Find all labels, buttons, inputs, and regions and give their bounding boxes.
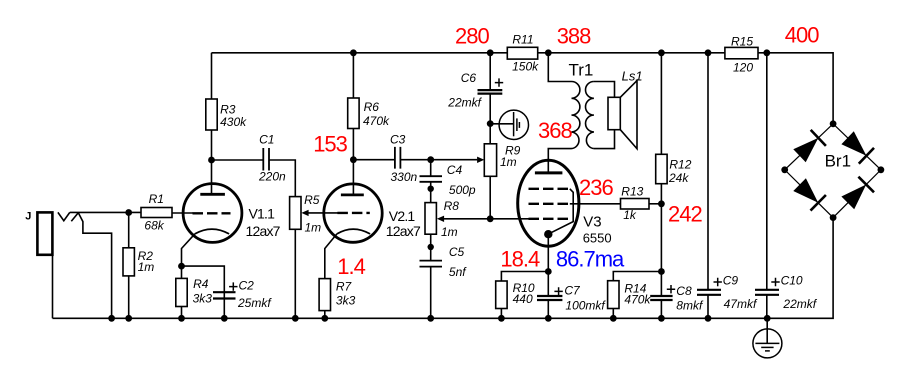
svg-text:24k: 24k [668, 171, 689, 185]
node rail C5 [427, 315, 434, 322]
potentiometer R9 1m [484, 144, 496, 177]
wire C1 row [212, 160, 296, 318]
svg-text:1m: 1m [305, 221, 322, 235]
node 280 [487, 49, 494, 56]
svg-text:R11: R11 [512, 32, 533, 46]
plus sign C10 [771, 278, 779, 286]
node R15 left [705, 49, 712, 56]
node rail C7 [545, 315, 552, 322]
plus sign C9 [714, 278, 722, 286]
svg-text:C3: C3 [390, 133, 406, 147]
svg-text:388: 388 [557, 23, 591, 48]
node rail C8 [658, 315, 665, 322]
node R8 C5 [428, 244, 434, 250]
wire node to C2 [182, 266, 225, 318]
connector J jack [37, 212, 52, 254]
wire input to node and R1 [70, 211, 141, 213]
resistor R3 430k [206, 99, 217, 130]
diode D1 top-left [793, 131, 866, 209]
svg-text:J: J [25, 211, 31, 223]
capacitor C9 47mkf [697, 290, 721, 295]
node C3 C4 [427, 156, 434, 163]
svg-text:3k3: 3k3 [336, 293, 356, 307]
svg-text:V2.1: V2.1 [389, 208, 416, 224]
wire C3 row [353, 159, 477, 161]
node R14 C8 [658, 268, 665, 275]
bridge rectifier Br1 [785, 124, 881, 218]
svg-text:Tr1: Tr1 [569, 61, 594, 80]
node rail R14 [610, 315, 617, 322]
svg-text:R6: R6 [364, 100, 380, 114]
wire jack tip contact [58, 212, 70, 220]
node rail ground [764, 315, 771, 322]
svg-text:C4: C4 [447, 163, 463, 177]
wire V1.1 cathode to R4 [182, 234, 195, 318]
svg-text:C6: C6 [461, 71, 477, 85]
wire R6 branch plate V2.1 [352, 53, 354, 195]
plus sign C7 [554, 287, 562, 295]
svg-text:C5: C5 [449, 245, 465, 259]
wire C10 branch [766, 53, 768, 319]
transformer Tr1 secondary winding [586, 82, 594, 149]
wire node to R14 [613, 272, 661, 319]
resistor R15 120 [725, 47, 758, 58]
resistor R12 24k [656, 154, 667, 183]
svg-text:22mkf: 22mkf [782, 297, 817, 311]
wire R2 leads [128, 213, 130, 319]
node C6 R9 [487, 120, 494, 127]
potentiometer R5 1m [290, 197, 301, 230]
svg-text:8mkf: 8mkf [676, 299, 704, 313]
wire C9 branch [707, 53, 709, 319]
svg-text:R13: R13 [621, 185, 643, 199]
svg-text:18.4: 18.4 [500, 247, 540, 272]
arrow wiper R9 [477, 157, 484, 163]
tube V2.1 12ax7 [324, 184, 382, 242]
svg-text:280: 280 [455, 23, 489, 48]
svg-text:86.7ma: 86.7ma [556, 247, 625, 272]
wire jack sleeve down [52, 255, 54, 318]
svg-text:500p: 500p [449, 183, 476, 197]
diode D2 top-right [841, 131, 866, 156]
node R9 grid [487, 215, 494, 222]
svg-text:C9: C9 [723, 274, 739, 288]
capacitor C7 100mkf [537, 296, 562, 300]
arrow wiper R8 [437, 216, 444, 222]
wire jack switch contact [71, 213, 78, 222]
diode D3 bottom-left [793, 178, 818, 203]
svg-text:470k: 470k [624, 293, 651, 307]
svg-text:6550: 6550 [583, 231, 612, 246]
svg-text:1m: 1m [441, 225, 458, 239]
svg-text:1m: 1m [138, 260, 155, 274]
resistor R1 68k [123, 47, 758, 310]
svg-text:Ls1: Ls1 [622, 68, 643, 83]
svg-text:R15: R15 [731, 35, 753, 49]
wire R12 branch [660, 53, 662, 272]
svg-text:V3: V3 [583, 214, 601, 231]
svg-text:430k: 430k [220, 115, 247, 129]
potentiometer R8 1m [425, 203, 436, 235]
node V1.1 cathode [178, 263, 185, 270]
plus sign C8 [667, 285, 675, 293]
node rail R4 [178, 315, 185, 322]
node bridge left [781, 166, 788, 173]
wire jack switch to ground [78, 213, 111, 319]
svg-text:470k: 470k [363, 114, 390, 128]
svg-text:400: 400 [785, 23, 819, 48]
transformer Tr1 primary winding [572, 82, 580, 149]
svg-text:C8: C8 [676, 284, 692, 298]
svg-text:1m: 1m [500, 155, 517, 169]
svg-text:153: 153 [313, 131, 347, 156]
wire V2.1 cathode to R7 [325, 234, 337, 318]
node V3 cathode [544, 230, 552, 238]
svg-text:368: 368 [538, 118, 572, 143]
resistor R7 3k3 [319, 279, 330, 311]
svg-text:V1.1: V1.1 [249, 206, 276, 222]
svg-text:68k: 68k [144, 218, 164, 232]
plus sign C2 [229, 78, 780, 295]
node rail R5 [292, 315, 299, 322]
wire V3 screen to R13 [570, 203, 621, 205]
wire transformer primary top [548, 53, 571, 82]
node rail C9 [705, 315, 712, 322]
node input [125, 209, 132, 216]
svg-text:R5: R5 [304, 193, 320, 207]
svg-text:12ax7: 12ax7 [246, 223, 281, 239]
svg-text:R4: R4 [193, 277, 209, 291]
resistor R11 150k [507, 47, 537, 59]
svg-text:C2: C2 [239, 279, 255, 293]
resistor R10 440 [496, 281, 507, 309]
wire ground stem [766, 318, 768, 343]
svg-text:47mkf: 47mkf [724, 297, 758, 311]
node rail R7 [321, 315, 328, 322]
svg-text:R8: R8 [444, 199, 460, 213]
node bridge right [878, 166, 885, 173]
node R15 right [763, 49, 770, 56]
svg-text:25mkf: 25mkf [237, 296, 272, 310]
node V3 cathode R10 C7 [545, 268, 552, 275]
node R6 C3 153 [350, 156, 357, 163]
capacitor C6 22mkf [478, 90, 503, 94]
svg-text:100mkf: 100mkf [565, 299, 606, 313]
capacitor C5 5nf [420, 261, 443, 267]
wire R9 node to circle symbol [490, 123, 513, 125]
wire R5 wiper to V2.1 grid [307, 212, 338, 214]
resistor R13 1k [621, 199, 650, 210]
tube V3 6550 [518, 160, 579, 246]
diode D2 bar [859, 148, 874, 164]
diode D4 bottom-right [841, 185, 866, 210]
svg-text:120: 120 [733, 61, 753, 75]
capacitor C10 22mkf [755, 290, 779, 295]
resistor R14 470k [608, 281, 619, 309]
capacitor C2 25mkf [213, 90, 779, 300]
node R3 C1 [208, 157, 215, 164]
diode D4 bar [858, 177, 874, 193]
wire C8 leads [660, 272, 662, 319]
speaker Ls1 [608, 81, 637, 149]
wire C7 leads [547, 272, 549, 319]
wire C4 R8 C5 branch [430, 160, 432, 319]
capacitor C4 500p [420, 176, 443, 182]
node bridge bottom [830, 214, 837, 221]
svg-text:242: 242 [668, 202, 702, 227]
wire top rail [212, 53, 834, 124]
node R6 top [350, 49, 357, 56]
resistor R2 1m [123, 248, 134, 276]
wire R3 branch plate V1.1 [211, 53, 213, 195]
capacitor C3 330n [395, 147, 401, 169]
node rail C2 [221, 315, 228, 322]
svg-text:5nf: 5nf [449, 265, 467, 279]
svg-text:12ax7: 12ax7 [386, 223, 421, 239]
diode D1 bar [811, 130, 826, 146]
svg-text:C1: C1 [259, 133, 274, 147]
wire bottom rail [53, 218, 834, 319]
plus sign C6 [495, 78, 503, 86]
capacitor C1 220n [263, 147, 442, 267]
node rail R2 [125, 315, 132, 322]
wire transformer primary bottom to V3 plate [548, 149, 571, 173]
svg-text:R7: R7 [336, 279, 353, 293]
node bridge top [830, 120, 837, 127]
svg-text:330n: 330n [391, 170, 418, 184]
resistor R6 470k [348, 98, 359, 129]
node C4 R8 [428, 186, 434, 192]
svg-text:440: 440 [513, 292, 533, 306]
svg-text:R12: R12 [669, 157, 691, 171]
circle symbol shield [499, 110, 528, 139]
node rail R10 [498, 315, 505, 322]
wire R8 wiper to V3 grid [444, 218, 529, 220]
svg-text:1.4: 1.4 [337, 254, 365, 279]
tube V1.1 12ax7 [183, 184, 242, 243]
wire R13 to 242 rail [649, 203, 661, 205]
wire V3 beam plates to cathode [549, 189, 573, 234]
wire transformer secondary to speaker [594, 82, 615, 149]
resistor R4 3k3 [176, 278, 187, 306]
ground symbol [753, 329, 782, 358]
node R12 top [658, 49, 665, 56]
svg-text:236: 236 [579, 175, 613, 200]
wire cathode node to R10 [501, 272, 548, 319]
svg-text:R1: R1 [149, 192, 164, 206]
svg-text:1k: 1k [623, 208, 637, 222]
svg-text:150k: 150k [512, 59, 539, 73]
svg-text:C7: C7 [564, 284, 581, 298]
wire R1 to V1.1 grid [172, 212, 193, 214]
node rail jack switch [108, 315, 115, 322]
capacitor C8 8mkf [650, 296, 672, 300]
svg-text:22mkf: 22mkf [447, 96, 482, 110]
svg-text:220n: 220n [258, 169, 286, 183]
arrow wiper R5 [301, 210, 308, 216]
wire V3 cathode down [547, 234, 549, 271]
svg-text:3k3: 3k3 [193, 291, 213, 305]
wire C6 R9 branch [489, 53, 491, 219]
node 388 [545, 49, 552, 56]
diode D3 bar [811, 195, 826, 211]
svg-text:Br1: Br1 [825, 151, 851, 170]
node 242 R13 [658, 200, 665, 207]
svg-text:C10: C10 [781, 274, 803, 288]
